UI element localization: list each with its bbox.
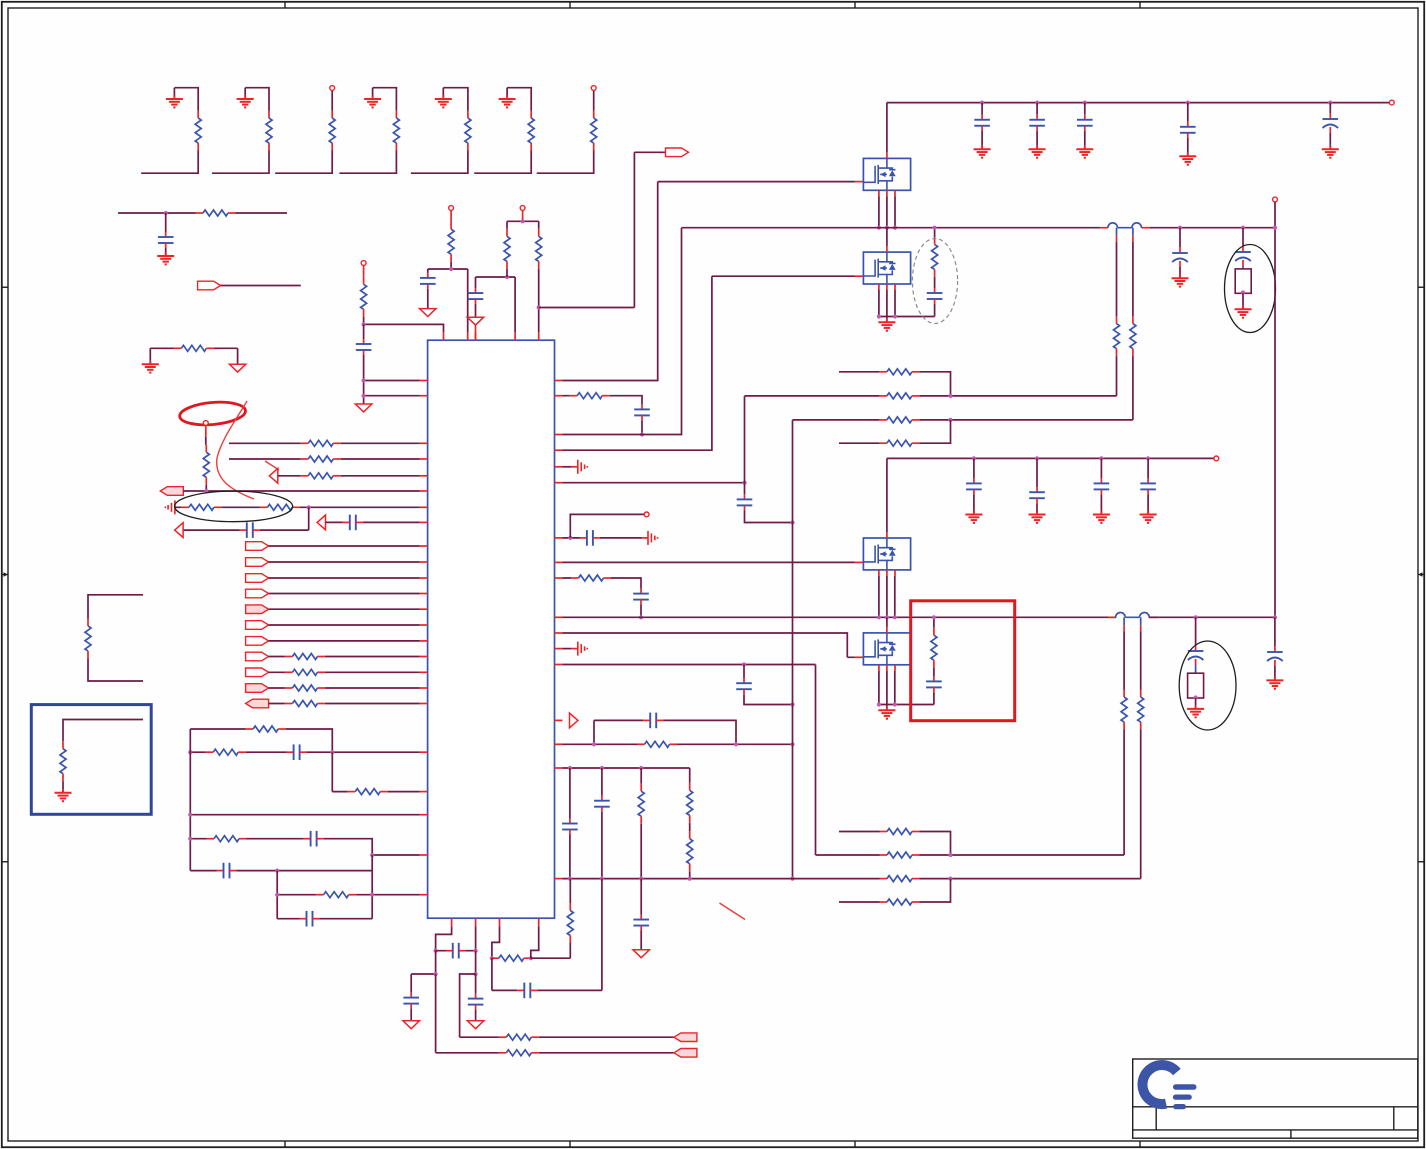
resistor R27 [60,741,66,781]
wire net R27 [63,720,143,742]
wire net507 [175,506,420,508]
resistor R2 pull branch [212,88,272,174]
junction [362,394,366,398]
ground Q2 source [878,319,895,331]
wire decouple x569 [569,768,571,879]
capacitor C28 decoupling [966,478,982,494]
wire net894 [277,871,419,919]
resistor R53 [491,955,531,961]
junction [790,520,794,524]
wire net434 [563,228,682,435]
port PORT16 [674,1033,697,1042]
wire [641,420,643,434]
wire net990 [492,879,602,991]
wire [475,1010,477,1021]
junction [1241,290,1245,294]
ground [1266,677,1283,689]
ground [1322,146,1339,158]
wire [744,694,793,704]
wire [363,324,365,339]
junction [972,456,976,460]
junction [734,742,738,746]
wire pin499 bottom [492,926,500,958]
junction [529,956,533,960]
wire cap leg x475 [475,277,477,288]
wire net476 [278,475,420,477]
port PORT6 [246,589,269,598]
port PORT10 [246,652,269,661]
junction [1083,101,1087,105]
junction [449,267,453,271]
wire rail768 [563,767,690,769]
wire cap drop x1037 [1036,458,1038,487]
power arrow A7 [633,950,649,958]
capacitor C34 [446,943,466,959]
junction [1328,101,1332,105]
annotation red curve [217,401,254,499]
wire [363,265,365,276]
junction [568,877,572,881]
resistor R25 [316,892,356,898]
capacitor C24 decoupling [1180,122,1196,138]
black ellipse annotation E5 [1179,641,1236,730]
wire left bus vertical [189,729,191,871]
capacitor C7 [300,911,320,927]
resistor R49 [880,876,920,882]
wire net530 [183,507,309,530]
junction [600,877,604,881]
wire to pin P6 [570,514,644,538]
ground [1235,306,1252,318]
resistor R34 [638,784,644,824]
resistor R39 [1114,316,1120,356]
wire net958 to R54 [531,943,571,958]
wire cap-gnd x641 [640,879,642,915]
resistor R16 [260,504,300,510]
resistor R43 [879,417,919,423]
wire rail617 left [563,616,1117,618]
annotation red ellipse [179,400,247,428]
wire [205,425,207,437]
wire net R50 [839,879,951,902]
capacitor C15 [736,678,752,694]
junction [164,211,168,215]
wire [1123,730,1125,856]
wire net752 [190,751,419,753]
junction [370,893,374,897]
wire battery vertical x1275 [1274,202,1276,617]
port PORT11 [246,668,269,677]
input triangle net522 [317,515,325,530]
ground [1179,153,1196,165]
wire [205,485,207,491]
chassis ground net466 [563,466,572,468]
black ellipse annotation E4 [1225,245,1276,333]
wire net R41 [839,372,951,396]
wire long vertical to net1052 [436,974,674,1053]
wire L1 left drop [1116,242,1118,316]
wire cap leg [427,269,429,273]
wire cap drop x1084 [1084,103,1086,115]
port PORT13 bidirectional [246,699,269,708]
resistor R20 [285,701,325,707]
wire cap drop x1037 [1036,103,1038,115]
wire phase rail y227 [682,227,1276,229]
ground [1076,146,1093,158]
wire Q4 sources [879,671,934,705]
junction [568,536,572,540]
junction [474,972,478,976]
wire from PORT10 [269,656,420,658]
resistor R32 [571,575,611,581]
junction [877,314,881,318]
wire rail102 [887,102,1390,104]
port PORT8 [246,621,269,630]
junction [932,615,936,619]
fuse FB2 [1188,673,1204,698]
wire [1140,730,1142,879]
resistor R14 [301,473,341,479]
wire from PORT7 [269,608,420,610]
resistor R36 [687,831,693,871]
wire to ground [165,248,167,253]
resistor R50 [880,899,920,905]
resistor R38 snubber [931,628,937,668]
wire from PORT6 [269,593,420,595]
ground of R1 [166,96,183,108]
ground of R4 [364,96,381,108]
wire [1242,293,1244,306]
terminal pin of R7 [591,86,596,91]
wire from PORT3 [269,545,420,547]
junction [893,702,897,706]
wire net R48 [816,854,1125,856]
junction [188,813,192,817]
wire decouple x601 [601,768,603,879]
capacitor C22 decoupling [1029,115,1045,131]
junction [362,322,366,326]
resistor R22 [206,749,246,755]
resistor R47 [880,829,920,835]
junction [1146,456,1150,460]
resistor R26 [85,618,91,658]
port PORT14 [666,148,689,157]
ground of R5 [435,96,452,108]
input triangle net476 [269,468,277,483]
resistor R44 [879,440,919,446]
resistor R37 snubber [932,237,938,277]
resistor R6 pull branch [474,88,534,174]
wire [981,131,983,146]
resistor R54 [567,903,573,943]
wire net395 left [364,395,420,397]
junction [885,615,889,619]
resistor R4 pull branch [339,88,399,174]
snubber branch x933 [933,617,935,704]
wire net562 to Q3 gate [563,561,855,563]
junction [307,505,311,509]
junction [893,615,897,619]
wire net814 [190,814,419,816]
resistor R35 [687,783,693,823]
terminal pin P7 [1389,100,1394,105]
port PORT15 [674,1049,697,1058]
wire [475,304,477,317]
ground [157,253,174,265]
wire net R43 [793,419,1133,421]
junction [505,275,509,279]
resistor R24 [207,836,247,842]
capacitor C31 decoupling [1140,478,1156,494]
power arrow A6 [467,1021,483,1029]
junction [790,702,794,706]
wire [62,781,64,789]
terminal pin P5 [520,206,525,211]
junction [521,219,525,223]
wire net482 [563,482,745,484]
wire net307 horizontal [539,152,666,307]
capacitor C13 [737,494,753,510]
capacitor C14 [580,530,600,546]
wire [1036,131,1038,146]
resistor R23 [348,789,388,795]
resistor R29 [504,229,510,269]
junction [790,877,794,881]
wire net R44 [839,420,951,443]
wire cap drop x1187 [1187,103,1189,122]
junction [434,972,438,976]
wire [506,221,508,229]
wire from PORT8 [269,624,420,626]
chassis ground net648 [563,648,572,650]
capacitor C27 polarized [1235,246,1251,266]
wire net974 left [411,951,435,993]
resistor R28 [448,222,454,262]
ground [1187,705,1204,717]
terminal pin P2 [203,421,208,426]
wire net1037 [460,974,674,1037]
ground [55,789,72,801]
terminal pin P3 [361,261,366,266]
capacitor C21 decoupling [974,115,990,131]
capacitor C8 [420,273,436,289]
junction [474,949,478,953]
wire L2 right drop [1140,631,1142,689]
junction [877,615,881,619]
wire [506,269,508,277]
junction [1178,226,1182,230]
resistor R7 pull branch [537,90,597,173]
wire L1 right drop [1132,242,1134,316]
wire Q2 drain [886,228,888,246]
wire varistor branch x1195 [1195,617,1197,645]
capacitor C33 polarized [1267,646,1283,666]
fuse FB1 [1235,269,1251,293]
wire [1274,666,1276,677]
wire net537 [563,537,642,539]
chassis ground net507 [165,500,175,514]
capacitor C4 [287,744,307,760]
resistor R5 pull branch [411,88,471,174]
wire net791 [332,752,419,791]
capacitor C6 [217,863,237,879]
wire net R42 [745,395,1117,397]
resistor R48 [880,852,920,858]
wire cap drop x1330 [1329,103,1331,113]
wire net491 [183,490,419,492]
wire L2 left drop [1123,631,1125,689]
wire net221 [522,210,524,221]
junction [948,394,952,398]
power arrow A5 [403,1021,419,1029]
junction [1273,615,1277,619]
wire net459 [229,458,420,460]
wire [569,879,571,903]
wire cap chain x744 upper [744,483,746,495]
capacitor C5 [304,831,324,847]
junction [885,226,889,230]
resistor R18 [285,669,325,675]
port PORT2 net491 [160,487,183,496]
wire net729 [190,729,332,752]
ground [965,511,982,523]
resistor R52 [499,1050,539,1056]
wire net VIN y213 [118,212,287,214]
wire net450 to Q2 gate [563,276,855,450]
wire rail458 [887,457,1214,459]
dual MOSFET Q4 [863,627,910,671]
terminal pin P4 [449,206,454,211]
port PORT5 [246,574,269,583]
resistor R21 [246,726,286,732]
power arrow A3 [467,317,483,325]
junction [1194,695,1198,699]
resistor R30 [536,229,542,269]
junction [600,766,604,770]
capacitor C3 [343,515,363,531]
port PORT1 [198,281,221,290]
wire net395 right [563,396,643,405]
resistor R10 [203,445,209,485]
wire [1147,494,1149,511]
capacitor C35 [468,994,484,1010]
junction [948,853,952,857]
wire [1116,356,1118,396]
wire [745,510,793,522]
junction [688,877,692,881]
wire [1132,356,1134,420]
wire to junction net269 [428,262,468,333]
common-mode choke L2 [1108,613,1157,632]
junction [877,226,881,230]
snubber branch x934 [934,228,936,317]
wire [363,355,365,404]
wire cap leg x475 [475,974,477,994]
wire net633 to Q4 gate [563,633,855,657]
wire [450,210,452,221]
wire [1195,698,1197,705]
wire cap drop x982 [981,103,983,115]
wire net380 right to Q1 gate [563,182,855,381]
port PORT7 [246,605,269,614]
wire cap drop x1148 [1147,458,1149,478]
resistor R51 [499,1034,539,1040]
wire Q1 sources to phase rail [879,196,895,227]
capacitor C17 [562,819,578,835]
wire [436,950,476,952]
annotation red tick [265,461,279,470]
junction [537,305,541,309]
wire [1084,131,1086,146]
capacitor C38 [633,915,649,931]
resistor R19 [285,685,325,691]
junction [639,766,643,770]
terminal pin P8 [1273,197,1278,202]
wire cap chain x744 lower [743,665,745,679]
power arrow A4 [355,404,371,412]
wire pin475 bottom [475,926,477,951]
wire net720 RC bridge [594,720,736,744]
wire rail617 right [1149,616,1275,618]
wire net838 [190,839,419,855]
resistor R17 [285,654,325,660]
junction [790,742,794,746]
resistor R33 [637,741,677,747]
black ellipse annotation E2 [175,491,293,522]
junction [592,742,596,746]
wire net R49 to rail878 [951,878,1141,880]
junction [948,877,952,881]
port PORT3 [246,542,269,551]
wire from PORT13 [269,703,420,705]
resistor R11 [361,277,367,317]
wire [410,1009,412,1021]
wire Q2 sources [879,290,935,317]
wire pin538 bottom [531,926,539,958]
wire [640,931,642,950]
wire cap drop x1274 [1274,617,1276,646]
resistor R12 [301,440,341,446]
junction [639,877,643,881]
wire net R47 [839,832,951,856]
port PORT12 [246,684,269,693]
junction [275,869,279,873]
wire [1187,138,1189,153]
capacitor C37 [517,983,537,999]
capacitor C19 snubber [927,288,943,304]
junction [1241,226,1245,230]
wire cap drop x1180 [1179,228,1181,247]
wire cap branch [165,213,167,232]
wire Q3 drain to rail458 [886,458,888,532]
wire from PORT12 [269,687,420,689]
terminal pin P6 [644,512,649,517]
IC U1 pin stubs [420,332,563,926]
wire rail878 [563,878,951,880]
junction [330,750,334,754]
junction [1099,456,1103,460]
chassis ground net537 [642,537,649,539]
blue box annotation [31,705,151,815]
resistor R31 [570,393,610,399]
wire from PORT11 [269,671,420,673]
junction [434,949,438,953]
dual MOSFET Q2 [863,246,910,290]
wire net918 [277,918,372,920]
junction [275,893,279,897]
clock triangle net720 [570,713,578,728]
capacitor C32 polarized [1188,645,1204,665]
